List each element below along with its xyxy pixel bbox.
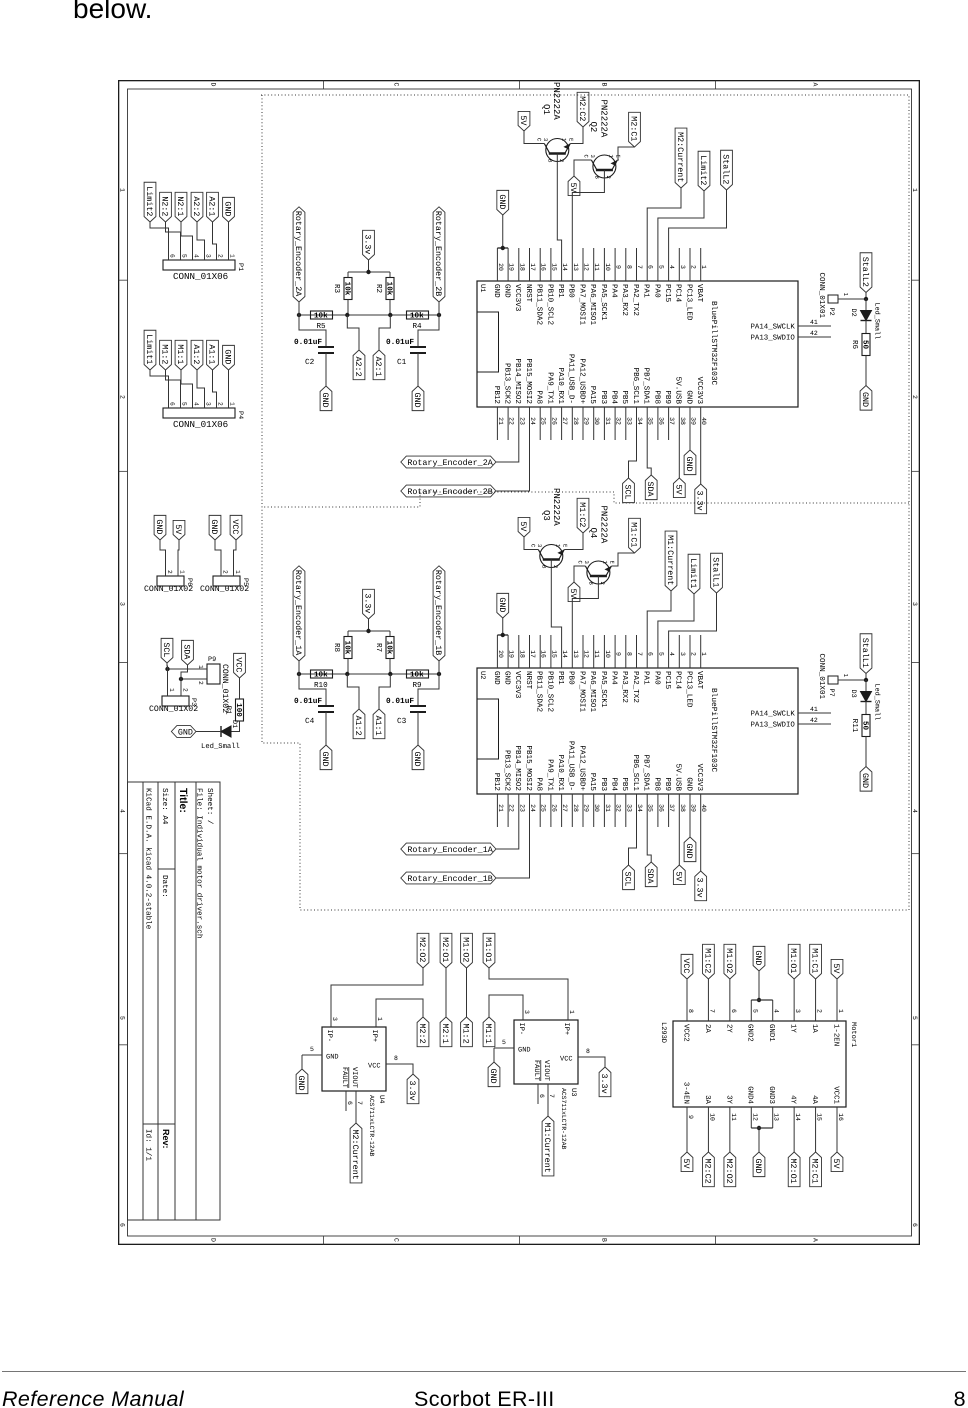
svg-text:StalL2: StalL2 (721, 154, 731, 184)
svg-text:23: 23 (518, 804, 525, 812)
svg-text:M1:C1: M1:C1 (810, 948, 820, 973)
svg-text:GND: GND (492, 671, 501, 685)
svg-text:L293D: L293D (659, 1022, 667, 1043)
GND label at Q1 pins 19-20 (497, 190, 509, 215)
wire to pin23 (496, 440, 519, 462)
svg-text:3.3v: 3.3v (363, 234, 373, 254)
capacitor C4 0.01uF (299, 674, 326, 706)
svg-text:CONN_01X06: CONN_01X06 (173, 271, 228, 282)
GND label ending stall chain (860, 386, 872, 411)
svg-text:PC13_LED: PC13_LED (684, 671, 693, 708)
LED D1 Led_Small (221, 726, 231, 737)
top paragraph text (73, 0, 152, 25)
wire 5V to P6 pin1 (178, 540, 179, 568)
label M2:C2 at Q1 emitter (577, 92, 589, 127)
wire 5V to collector qb (574, 160, 590, 176)
label M1:Current (542, 1116, 554, 1176)
svg-text:Limit1: Limit1 (688, 558, 698, 588)
svg-text:2: 2 (911, 395, 918, 399)
wire StalL to pin4 (669, 593, 717, 635)
svg-text:File: Individual motor driver.: File: Individual motor driver.sch (195, 788, 204, 938)
svg-text:D: D (210, 83, 217, 87)
svg-text:VCC: VCC (368, 1063, 381, 1071)
svg-text:PA13_SWDIO: PA13_SWDIO (751, 335, 796, 343)
svg-text:M2:O2: M2:O2 (724, 1159, 734, 1184)
svg-text:M1:O2: M1:O2 (724, 948, 734, 973)
svg-text:3.3v: 3.3v (407, 1081, 417, 1101)
svg-text:22: 22 (508, 417, 515, 425)
P4 pin 3 (204, 398, 206, 408)
svg-text:SCL: SCL (161, 642, 171, 657)
label 3.3v at pin40 (695, 871, 707, 901)
svg-text:5: 5 (657, 652, 664, 656)
svg-text:VCC3V3: VCC3V3 (513, 671, 522, 699)
svg-text:7: 7 (548, 1094, 555, 1098)
svg-text:PA0: PA0 (652, 284, 661, 298)
svg-text:M1:O1: M1:O1 (483, 937, 493, 962)
IC U2 top pins 41-42 PA14_SWCLK PA13_SWDIO (798, 712, 831, 714)
svg-text:28: 28 (572, 804, 579, 812)
svg-text:PA0: PA0 (652, 671, 661, 685)
svg-text:VCC3V3: VCC3V3 (695, 764, 704, 792)
label M1:C1 at pin2 (810, 944, 822, 979)
label M1:O1 (483, 933, 495, 968)
svg-text:PB7_SDA1: PB7_SDA1 (642, 368, 651, 405)
svg-text:StalL1: StalL1 (711, 557, 721, 587)
svg-text:GND: GND (296, 1076, 306, 1091)
U3 pin8 VCC (578, 1056, 598, 1058)
wire StalL to pin4 (669, 190, 727, 248)
label M2:O2 at pin11 (724, 1152, 736, 1187)
network vertical bus (299, 314, 439, 316)
label M2:C2 at pin10 (703, 1152, 715, 1187)
svg-text:M1:Current: M1:Current (542, 1123, 552, 1173)
svg-text:32: 32 (615, 417, 622, 425)
svg-text:R11: R11 (850, 719, 858, 733)
wire Limit to pin5 (658, 191, 704, 248)
svg-text:PA8: PA8 (535, 777, 544, 791)
svg-text:1A: 1A (810, 1024, 818, 1033)
IC U1 BluePillSTM32F103C body (477, 281, 798, 407)
svg-text:GND: GND (492, 284, 501, 298)
global label Limit2 (144, 182, 156, 222)
svg-text:Limit2: Limit2 (144, 186, 154, 216)
LED D2 Led_Small (865, 299, 867, 311)
svg-text:2: 2 (166, 570, 173, 574)
svg-text:VBAT: VBAT (695, 671, 703, 690)
svg-text:Motor1: Motor1 (849, 1022, 857, 1047)
connector P2 CONN_01X01 (828, 295, 838, 303)
L293D left pins 1-8 (836, 1000, 838, 1021)
svg-text:5: 5 (119, 1016, 126, 1020)
svg-text:GND1: GND1 (767, 1024, 775, 1042)
svg-text:10k: 10k (384, 641, 393, 655)
label SDA at pin35 (645, 862, 657, 887)
svg-text:9: 9 (615, 652, 622, 656)
svg-text:6: 6 (538, 1094, 545, 1098)
label M1:C2 at pin7 (703, 944, 715, 979)
svg-text:GND: GND (684, 390, 693, 404)
5V label at Q4 collector (568, 582, 580, 602)
svg-text:11: 11 (593, 650, 600, 658)
svg-text:Limit2: Limit2 (698, 155, 708, 185)
label SCL at pin34 (623, 478, 635, 503)
global label StalL1 (711, 553, 723, 593)
svg-text:3: 3 (583, 561, 590, 564)
svg-text:GND: GND (320, 752, 330, 767)
svg-text:25: 25 (540, 804, 547, 812)
svg-text:Id: 1/1: Id: 1/1 (144, 1129, 153, 1161)
svg-text:GND: GND (497, 597, 507, 612)
svg-text:PA3_RX2: PA3_RX2 (620, 284, 629, 316)
svg-text:6: 6 (647, 265, 654, 269)
svg-text:4: 4 (911, 809, 918, 813)
svg-text:GND: GND (497, 194, 507, 209)
global label M1:1 (175, 340, 187, 370)
resistor R5 10k on bus (311, 311, 333, 319)
svg-text:6: 6 (730, 1009, 737, 1013)
global label M1:Current (665, 531, 677, 591)
svg-text:M1:O1: M1:O1 (788, 948, 798, 973)
svg-text:3A: 3A (703, 1095, 711, 1104)
svg-text:9: 9 (687, 1115, 694, 1119)
wire M2:O1 to M2:1 (445, 968, 447, 1017)
svg-text:SDA: SDA (645, 482, 655, 498)
svg-text:33: 33 (625, 804, 632, 812)
svg-text:1: 1 (376, 1017, 383, 1021)
svg-text:20: 20 (497, 650, 504, 658)
IC U2 BluePillSTM32F103C body (477, 668, 798, 794)
svg-text:10k: 10k (314, 671, 328, 680)
svg-text:1: 1 (179, 570, 186, 574)
connector P6 body (157, 576, 184, 586)
U4 pin1 IP+ (375, 1007, 377, 1027)
wire SCL to P3 pin1 (166, 663, 169, 686)
svg-text:N2:1: N2:1 (175, 196, 185, 216)
svg-text:A1:1: A1:1 (373, 716, 383, 736)
svg-text:2A: 2A (703, 1024, 711, 1033)
svg-text:PA5_SCK1: PA5_SCK1 (599, 671, 608, 708)
label M2:2 (417, 1017, 429, 1047)
svg-text:8: 8 (625, 265, 632, 269)
svg-text:GND: GND (223, 201, 233, 216)
resistor R2 10k (386, 278, 394, 300)
svg-text:5: 5 (310, 1046, 314, 1053)
wire GND to P1 pin 1 (228, 222, 230, 250)
svg-text:38: 38 (679, 804, 686, 812)
svg-text:M1:C1: M1:C1 (629, 522, 639, 547)
svg-text:24: 24 (529, 417, 536, 425)
transistor Q2 PN2222A (593, 155, 616, 178)
wire emitter qb to label (618, 147, 635, 160)
svg-text:10k: 10k (410, 312, 424, 321)
svg-text:PA11_USB_D-: PA11_USB_D- (567, 354, 576, 404)
svg-text:1: 1 (700, 265, 707, 269)
svg-text:PN2222A: PN2222A (551, 488, 561, 526)
svg-text:PA10_RX1: PA10_RX1 (556, 368, 565, 405)
svg-text:PA14_SWCLK: PA14_SWCLK (751, 711, 796, 719)
wire N2:2 to P1 pin 5 (166, 222, 181, 250)
svg-text:3.3v: 3.3v (363, 593, 373, 613)
svg-text:GND: GND (412, 752, 422, 767)
5V label at Q2 collector (568, 176, 580, 196)
label M2:C1 at pin15 (810, 1152, 822, 1187)
svg-text:17: 17 (529, 263, 536, 271)
svg-text:1: 1 (842, 293, 849, 297)
svg-text:PA2_TX2: PA2_TX2 (631, 671, 640, 703)
svg-text:7: 7 (708, 1009, 715, 1013)
P6 pins (165, 568, 167, 576)
svg-text:12: 12 (751, 1113, 758, 1121)
IC U2 left pins 1-20 (700, 635, 702, 668)
svg-text:C: C (393, 1238, 400, 1242)
svg-text:16: 16 (540, 650, 547, 658)
wire Q1 base to pin14 (557, 164, 561, 248)
svg-text:12: 12 (583, 650, 590, 658)
GND label at Q3 pins 19-20 (497, 593, 509, 618)
svg-text:PA13_SWDIO: PA13_SWDIO (751, 722, 796, 730)
svg-text:3: 3 (911, 602, 918, 606)
resistor R11 50 (862, 715, 870, 737)
svg-text:36: 36 (657, 417, 664, 425)
IC U1 left pins 1-20 (700, 248, 702, 281)
svg-text:PC14: PC14 (674, 284, 683, 303)
svg-text:PA8: PA8 (535, 390, 544, 404)
svg-text:U2: U2 (478, 671, 486, 679)
svg-text:1: 1 (568, 1010, 575, 1014)
svg-text:2: 2 (119, 395, 126, 399)
P4 pin 1 (228, 398, 230, 408)
svg-text:5: 5 (751, 1009, 758, 1013)
svg-text:41: 41 (810, 319, 818, 326)
transistor Q1 PN2222A (546, 139, 569, 162)
svg-text:1: 1 (197, 665, 204, 669)
wire num-label to U3 IP- (489, 995, 523, 1017)
svg-text:PA9_TX1: PA9_TX1 (545, 372, 554, 404)
svg-text:B: B (540, 565, 547, 569)
svg-text:6: 6 (911, 1223, 918, 1227)
svg-text:1: 1 (119, 188, 126, 192)
svg-text:Rotary_Encoder_2B: Rotary_Encoder_2B (407, 487, 492, 497)
svg-text:7: 7 (636, 265, 643, 269)
svg-text:PB14_MISO2: PB14_MISO2 (513, 358, 522, 404)
svg-text:Q3: Q3 (541, 510, 551, 521)
svg-text:SCL: SCL (623, 872, 633, 887)
svg-text:5: 5 (181, 402, 188, 406)
wire O-label to U4 IP- (331, 968, 423, 1007)
svg-text:10k: 10k (342, 282, 351, 296)
svg-text:11: 11 (730, 1113, 737, 1121)
svg-text:VCC: VCC (681, 958, 691, 973)
svg-text:5V: 5V (673, 872, 683, 882)
svg-text:PB9: PB9 (663, 390, 672, 404)
svg-text:4: 4 (119, 809, 126, 813)
label 3.3v feeding divider (363, 589, 375, 619)
wire to pin24 (496, 827, 530, 878)
IC U4 ACS711xLCTR-12AB body (322, 1027, 386, 1091)
svg-text:GND: GND (154, 519, 164, 534)
svg-text:31: 31 (604, 417, 611, 425)
svg-text:1: 1 (842, 674, 849, 678)
svg-text:PA15: PA15 (588, 773, 596, 792)
label A1:1 (373, 709, 385, 739)
global label SCL (161, 638, 173, 663)
svg-text:100: 100 (234, 703, 243, 717)
horizontal label Rotary_Encoder_2A in network (293, 207, 305, 302)
P1 pin 4 (192, 250, 194, 260)
svg-text:1: 1 (560, 138, 567, 142)
svg-text:M2:Current: M2:Current (350, 1130, 360, 1180)
svg-text:40: 40 (700, 804, 707, 812)
svg-text:VCC: VCC (560, 1056, 573, 1064)
svg-text:5V: 5V (518, 115, 528, 125)
svg-text:R6: R6 (850, 340, 859, 350)
horizontal label Rotary_Encoder_1B in network (433, 566, 445, 661)
svg-text:5V: 5V (568, 589, 578, 599)
svg-text:39: 39 (690, 804, 697, 812)
svg-text:3: 3 (589, 155, 596, 158)
svg-text:C4: C4 (305, 717, 315, 726)
svg-text:VCC3V3: VCC3V3 (513, 284, 522, 312)
wire to pin24 (496, 440, 530, 491)
svg-text:0.01uF: 0.01uF (386, 697, 414, 706)
svg-text:10: 10 (604, 650, 611, 658)
svg-text:3: 3 (205, 254, 212, 258)
svg-text:34: 34 (636, 804, 643, 812)
svg-text:27: 27 (561, 804, 568, 812)
svg-text:BluePillSTM32F103C: BluePillSTM32F103C (709, 301, 718, 386)
label M2:O2 (417, 933, 429, 968)
svg-text:2: 2 (605, 176, 612, 179)
connector P5 body (213, 576, 240, 586)
P9 pins (196, 668, 207, 670)
global label 5V (173, 520, 185, 540)
svg-text:FAULT: FAULT (340, 1067, 348, 1088)
svg-text:VCC1: VCC1 (831, 1086, 839, 1104)
P4 pin 5 (180, 398, 182, 408)
svg-text:Led_Small: Led_Small (873, 684, 881, 721)
svg-text:2: 2 (182, 688, 189, 692)
resistor R6 50 (862, 334, 870, 356)
label M2:O1 (440, 933, 452, 968)
global label VCC (234, 653, 246, 678)
U4 pin8 VCC (386, 1063, 406, 1065)
capacitor C1 0.01uF (418, 315, 439, 347)
svg-text:CONN_01X02: CONN_01X02 (149, 705, 198, 714)
wire A2:1 to P1 pin 2 (213, 222, 217, 250)
svg-text:PC14: PC14 (674, 671, 683, 690)
svg-text:N2:2: N2:2 (160, 196, 170, 216)
connector P1 CONN_01X06 body (163, 260, 235, 270)
label A2:2 (353, 350, 365, 380)
GND label at C2 (320, 386, 332, 411)
svg-text:42: 42 (810, 717, 818, 724)
svg-text:2Y: 2Y (724, 1024, 732, 1033)
label M1:O1 at pin3 (788, 944, 800, 979)
global label A2:2 (191, 192, 203, 222)
svg-text:3: 3 (536, 544, 543, 547)
svg-text:PA14_SWCLK: PA14_SWCLK (751, 324, 796, 332)
wire 3.3v to junction (368, 260, 370, 272)
svg-text:PB6_SCL1: PB6_SCL1 (631, 755, 640, 792)
svg-text:CONN_01X01: CONN_01X01 (817, 273, 826, 319)
svg-text:GND: GND (684, 457, 694, 472)
P4 pin 2 (216, 398, 218, 408)
wire M1:1 to P4 pin 4 (181, 370, 193, 398)
label 3.3v at pin40 (695, 484, 707, 514)
U3 pin1 IP+ (567, 1000, 569, 1020)
wire M1:2 to P4 pin 5 (166, 370, 181, 398)
wire 5V to collector (524, 131, 543, 144)
svg-text:15: 15 (550, 650, 557, 658)
svg-text:Sheet: /: Sheet: / (205, 788, 214, 825)
svg-text:6: 6 (169, 402, 176, 406)
svg-text:ACS711xLCTR-12AB: ACS711xLCTR-12AB (560, 1088, 567, 1150)
svg-text:B: B (601, 83, 608, 87)
svg-text:4: 4 (668, 652, 675, 656)
svg-text:30: 30 (593, 417, 600, 425)
svg-text:R3: R3 (332, 284, 341, 294)
wire 5V to collector (524, 537, 537, 550)
svg-text:1: 1 (911, 188, 918, 192)
svg-text:C3: C3 (397, 717, 407, 726)
svg-text:PN2222A: PN2222A (551, 82, 561, 120)
svg-text:34: 34 (636, 417, 643, 425)
GND label at C1 (412, 386, 424, 411)
svg-text:M1:1: M1:1 (175, 344, 185, 364)
svg-text:13: 13 (572, 263, 579, 271)
svg-text:Rotary_Encoder_2A: Rotary_Encoder_2A (293, 211, 303, 297)
IC U3 ACS711xLCTR-12AB body (514, 1020, 578, 1084)
transistor Q4 PN2222A (587, 561, 610, 584)
U3 pin6 FAULT (537, 1084, 539, 1104)
wire A2:2 to P1 pin 3 (197, 222, 205, 250)
svg-text:PB6_SCL1: PB6_SCL1 (631, 368, 640, 405)
svg-text:M1:C2: M1:C2 (702, 948, 712, 973)
svg-text:1: 1 (601, 561, 608, 565)
svg-text:StalL2: StalL2 (860, 257, 870, 287)
svg-text:6: 6 (119, 1223, 126, 1227)
P5 pins (220, 568, 222, 576)
svg-text:U3: U3 (569, 1088, 577, 1096)
svg-text:M1:2: M1:2 (461, 1024, 471, 1044)
resistor R8 10k (344, 637, 352, 659)
global label VCC (230, 515, 242, 540)
svg-text:IP+: IP+ (562, 1023, 570, 1036)
svg-text:0.01uF: 0.01uF (386, 338, 414, 347)
wire Q4 base to pin13 (572, 587, 598, 636)
resistor R7 10k (386, 637, 394, 659)
svg-text:BluePillSTM32F103C: BluePillSTM32F103C (709, 688, 718, 773)
svg-text:PB13_SCK2: PB13_SCK2 (503, 750, 512, 791)
wire A1:2 to P4 pin 3 (197, 370, 205, 398)
svg-text:VCC2: VCC2 (681, 1024, 689, 1042)
svg-text:5: 5 (911, 1016, 918, 1020)
svg-text:GND3: GND3 (767, 1086, 775, 1104)
resistor R1 100 (236, 699, 244, 721)
svg-text:P2: P2 (827, 308, 835, 316)
svg-text:33: 33 (625, 417, 632, 425)
wire num-label to U4 IP+ (376, 999, 423, 1017)
svg-text:PB5: PB5 (620, 390, 628, 404)
svg-text:A2:1: A2:1 (207, 196, 217, 216)
svg-text:13: 13 (572, 650, 579, 658)
svg-text:2: 2 (816, 1009, 823, 1013)
svg-text:M2:C2: M2:C2 (702, 1159, 712, 1184)
label 3.3v feeding divider (363, 230, 375, 260)
label 5V at pin38 (673, 865, 685, 885)
svg-text:D1: D1 (230, 720, 238, 728)
